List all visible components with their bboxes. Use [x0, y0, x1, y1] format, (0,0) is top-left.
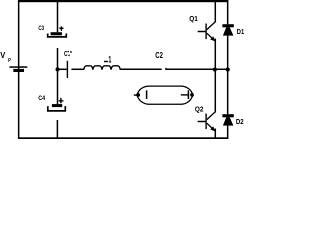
svg-text:1: 1	[108, 55, 111, 66]
label C'	[64, 49, 72, 58]
battery Vp	[9, 66, 27, 72]
wire right rail middle (Q1 emitter to Q2 collector)	[215, 39, 217, 113]
svg-text:P: P	[8, 58, 11, 64]
capacitor C4	[48, 98, 66, 111]
svg-text:D2: D2	[236, 119, 244, 126]
lamp outline	[137, 86, 193, 104]
capacitor C'	[58, 61, 84, 78]
lamp left lead	[134, 94, 138, 96]
node C junction dot	[226, 67, 230, 71]
node B junction dot	[213, 67, 217, 71]
lamp right electrode	[187, 90, 189, 99]
lamp right tip junction blob	[190, 93, 194, 97]
wire L1 to C2	[120, 68, 162, 70]
transistor Q2	[198, 112, 216, 131]
svg-text:C3: C3	[38, 25, 44, 32]
wire bottom rail	[18, 137, 229, 139]
label L1	[104, 55, 112, 66]
inductor L1	[84, 66, 120, 70]
wire mid vertical (C3 to C4)	[57, 48, 59, 104]
svg-text:Q1: Q1	[189, 16, 198, 23]
svg-text:D1: D1	[237, 29, 244, 36]
transistor Q1	[198, 22, 216, 41]
lamp right internal lead	[181, 94, 189, 96]
wire D2 bottom lead	[227, 126, 229, 139]
label Vp	[0, 51, 11, 64]
wire right rail upper (to Q1 collector)	[215, 0, 217, 22]
svg-text:Q2: Q2	[195, 107, 204, 114]
diode D1	[222, 24, 233, 35]
wire right rail lower (Q2 emitter to bottom rail)	[215, 129, 217, 140]
wire D1 to D2 (through node C)	[227, 36, 229, 115]
wire top rail	[18, 0, 229, 2]
wire C4 bottom lead	[57, 120, 59, 138]
node A junction dot	[56, 67, 60, 71]
capacitor C3	[48, 26, 67, 37]
svg-text:C2: C2	[155, 51, 163, 60]
wire left rail	[18, 1, 20, 139]
lamp left tip junction blob	[136, 93, 140, 97]
svg-text:C4: C4	[38, 95, 45, 102]
capacitor C2	[165, 68, 227, 70]
wire D1 top lead	[227, 2, 229, 24]
lamp left electrode	[146, 90, 148, 99]
svg-text:V: V	[0, 51, 6, 60]
diode D2	[222, 114, 233, 125]
wire C3 top lead	[57, 2, 59, 32]
svg-text:C: C	[64, 49, 68, 58]
